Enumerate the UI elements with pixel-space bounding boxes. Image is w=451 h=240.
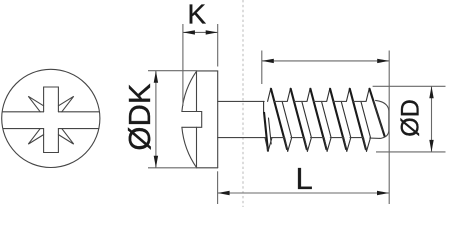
thread bottom crest 6 right flank <box>367 138 371 152</box>
L dimension / tip right extension line <box>388 51 390 205</box>
head bottom edge <box>197 167 218 169</box>
thread bottom crest 2 left flank <box>285 138 288 152</box>
K dimension: left extension line <box>182 24 184 106</box>
tip bottom root line <box>370 137 380 139</box>
DK dimension top arrowhead <box>154 71 158 83</box>
pozidriv wedge, upper-right <box>58 96 73 112</box>
thread flight 3 (crest-to-crest flank) <box>310 88 326 150</box>
thread flight 2 (crest-to-crest flank) <box>291 88 307 150</box>
thread bottom crest 5 left flank <box>344 138 347 152</box>
K dimension right arrowhead <box>206 30 218 34</box>
pozidriv wedge, lower-left <box>28 129 43 145</box>
thread root top segment 1 <box>274 100 287 102</box>
thread length left arrowhead <box>262 59 274 63</box>
thread top crest 4 left flank <box>327 88 330 101</box>
thread flight 6 trailing edge <box>374 102 383 132</box>
thread top crest 3 left flank <box>307 88 310 101</box>
thread bottom crest 3 left flank <box>304 138 307 152</box>
L dimension line <box>218 192 389 194</box>
L dimension: left extension line <box>217 171 219 204</box>
thread bottom crest 5 right flank <box>347 138 351 152</box>
thread bottom crest 1 left flank <box>265 138 268 152</box>
thread flight 2 trailing edge <box>302 101 312 137</box>
slot profile tab on dome <box>182 112 202 128</box>
head right (bearing) face <box>217 71 219 168</box>
D dimension bottom arrowhead <box>429 140 433 152</box>
thread runout vertical edge <box>263 101 265 112</box>
head dome/cylinder junction line <box>196 71 198 168</box>
screw tip outline <box>376 100 389 138</box>
pozidriv cross vertical arm <box>44 87 59 153</box>
D dimension: top extension line <box>373 85 446 87</box>
svg-text:K: K <box>187 0 206 29</box>
thread bottom crest 2 right flank <box>288 138 292 152</box>
thread bottom crest 3 right flank <box>307 138 311 152</box>
thread root bottom segment 4 <box>330 137 343 139</box>
D dimension top arrowhead <box>429 86 433 98</box>
svg-text:ØD: ØD <box>396 99 424 137</box>
thread runout flank <box>264 112 268 151</box>
K dimension line <box>183 31 218 33</box>
thread root top segment 4 <box>334 100 347 102</box>
vertical dash-dot centerline <box>242 0 244 207</box>
DK dimension bottom arrowhead <box>154 156 158 168</box>
thread flight 5 (crest-to-crest flank) <box>350 88 366 150</box>
thread root bottom segment 5 <box>350 137 363 139</box>
thread top crest 1 left flank <box>268 88 271 101</box>
svg-text:ØDK: ØDK <box>122 83 157 151</box>
thread root bottom segment 3 <box>311 137 324 139</box>
svg-text:L: L <box>295 161 312 196</box>
K dimension: right extension line <box>217 24 219 67</box>
thread top crest 6 left flank <box>366 88 369 101</box>
thread top crest 2 left flank <box>287 88 290 101</box>
thread root bottom segment 2 <box>291 137 304 139</box>
thread flight 4 trailing edge <box>341 101 351 137</box>
slot upper line, left of cross <box>3 111 44 113</box>
shank bottom line <box>218 137 265 139</box>
DK dimension: top extension line <box>148 70 197 72</box>
thread root top segment 3 <box>314 100 327 102</box>
thread flight 3 trailing edge <box>322 101 332 137</box>
shank top line <box>218 100 265 102</box>
head dome arc (lower) <box>182 127 197 168</box>
thread length right arrowhead <box>377 59 389 63</box>
thread bottom crest 4 right flank <box>327 138 331 152</box>
thread bottom crest 6 left flank <box>364 138 367 152</box>
thread flight 6 (clipped at tip) <box>369 88 385 137</box>
DK dimension line <box>155 71 157 168</box>
pozidriv wedge, lower-right <box>58 129 73 145</box>
side view: head flat top edge <box>197 70 218 72</box>
thread root top segment 5 <box>353 100 366 102</box>
thread top crest 5 left flank <box>346 88 349 101</box>
thread flight 1 (crest-to-crest flank) <box>271 88 287 150</box>
thread bottom crest 4 left flank <box>324 138 327 152</box>
thread bottom crest 1 right flank <box>268 138 272 152</box>
slot lower line, right of cross <box>58 128 98 130</box>
D dimension: bottom extension line <box>376 151 446 153</box>
thread flight 4 (crest-to-crest flank) <box>330 88 346 150</box>
slot lower line, left of cross <box>3 128 43 130</box>
front view: head outline circle <box>2 69 100 167</box>
thread runout trailing edge <box>269 118 272 144</box>
D dimension line <box>431 86 433 152</box>
thread root bottom segment 1 <box>271 137 284 139</box>
DK dimension: bottom extension line <box>148 167 197 169</box>
L dimension left arrowhead <box>218 191 230 195</box>
pozidriv wedge, upper-left <box>28 96 43 112</box>
thread flight 5 trailing edge <box>361 101 371 137</box>
L dimension right arrowhead <box>377 191 389 195</box>
head dome arc (upper) <box>182 71 197 112</box>
thread length dimension line <box>262 60 389 62</box>
K dimension left arrowhead <box>183 30 195 34</box>
slot upper line, right of cross <box>58 111 99 113</box>
thread root top segment 2 <box>294 100 307 102</box>
thread flight 1 trailing edge <box>282 101 292 137</box>
thread length dimension: left extension line <box>261 51 263 85</box>
